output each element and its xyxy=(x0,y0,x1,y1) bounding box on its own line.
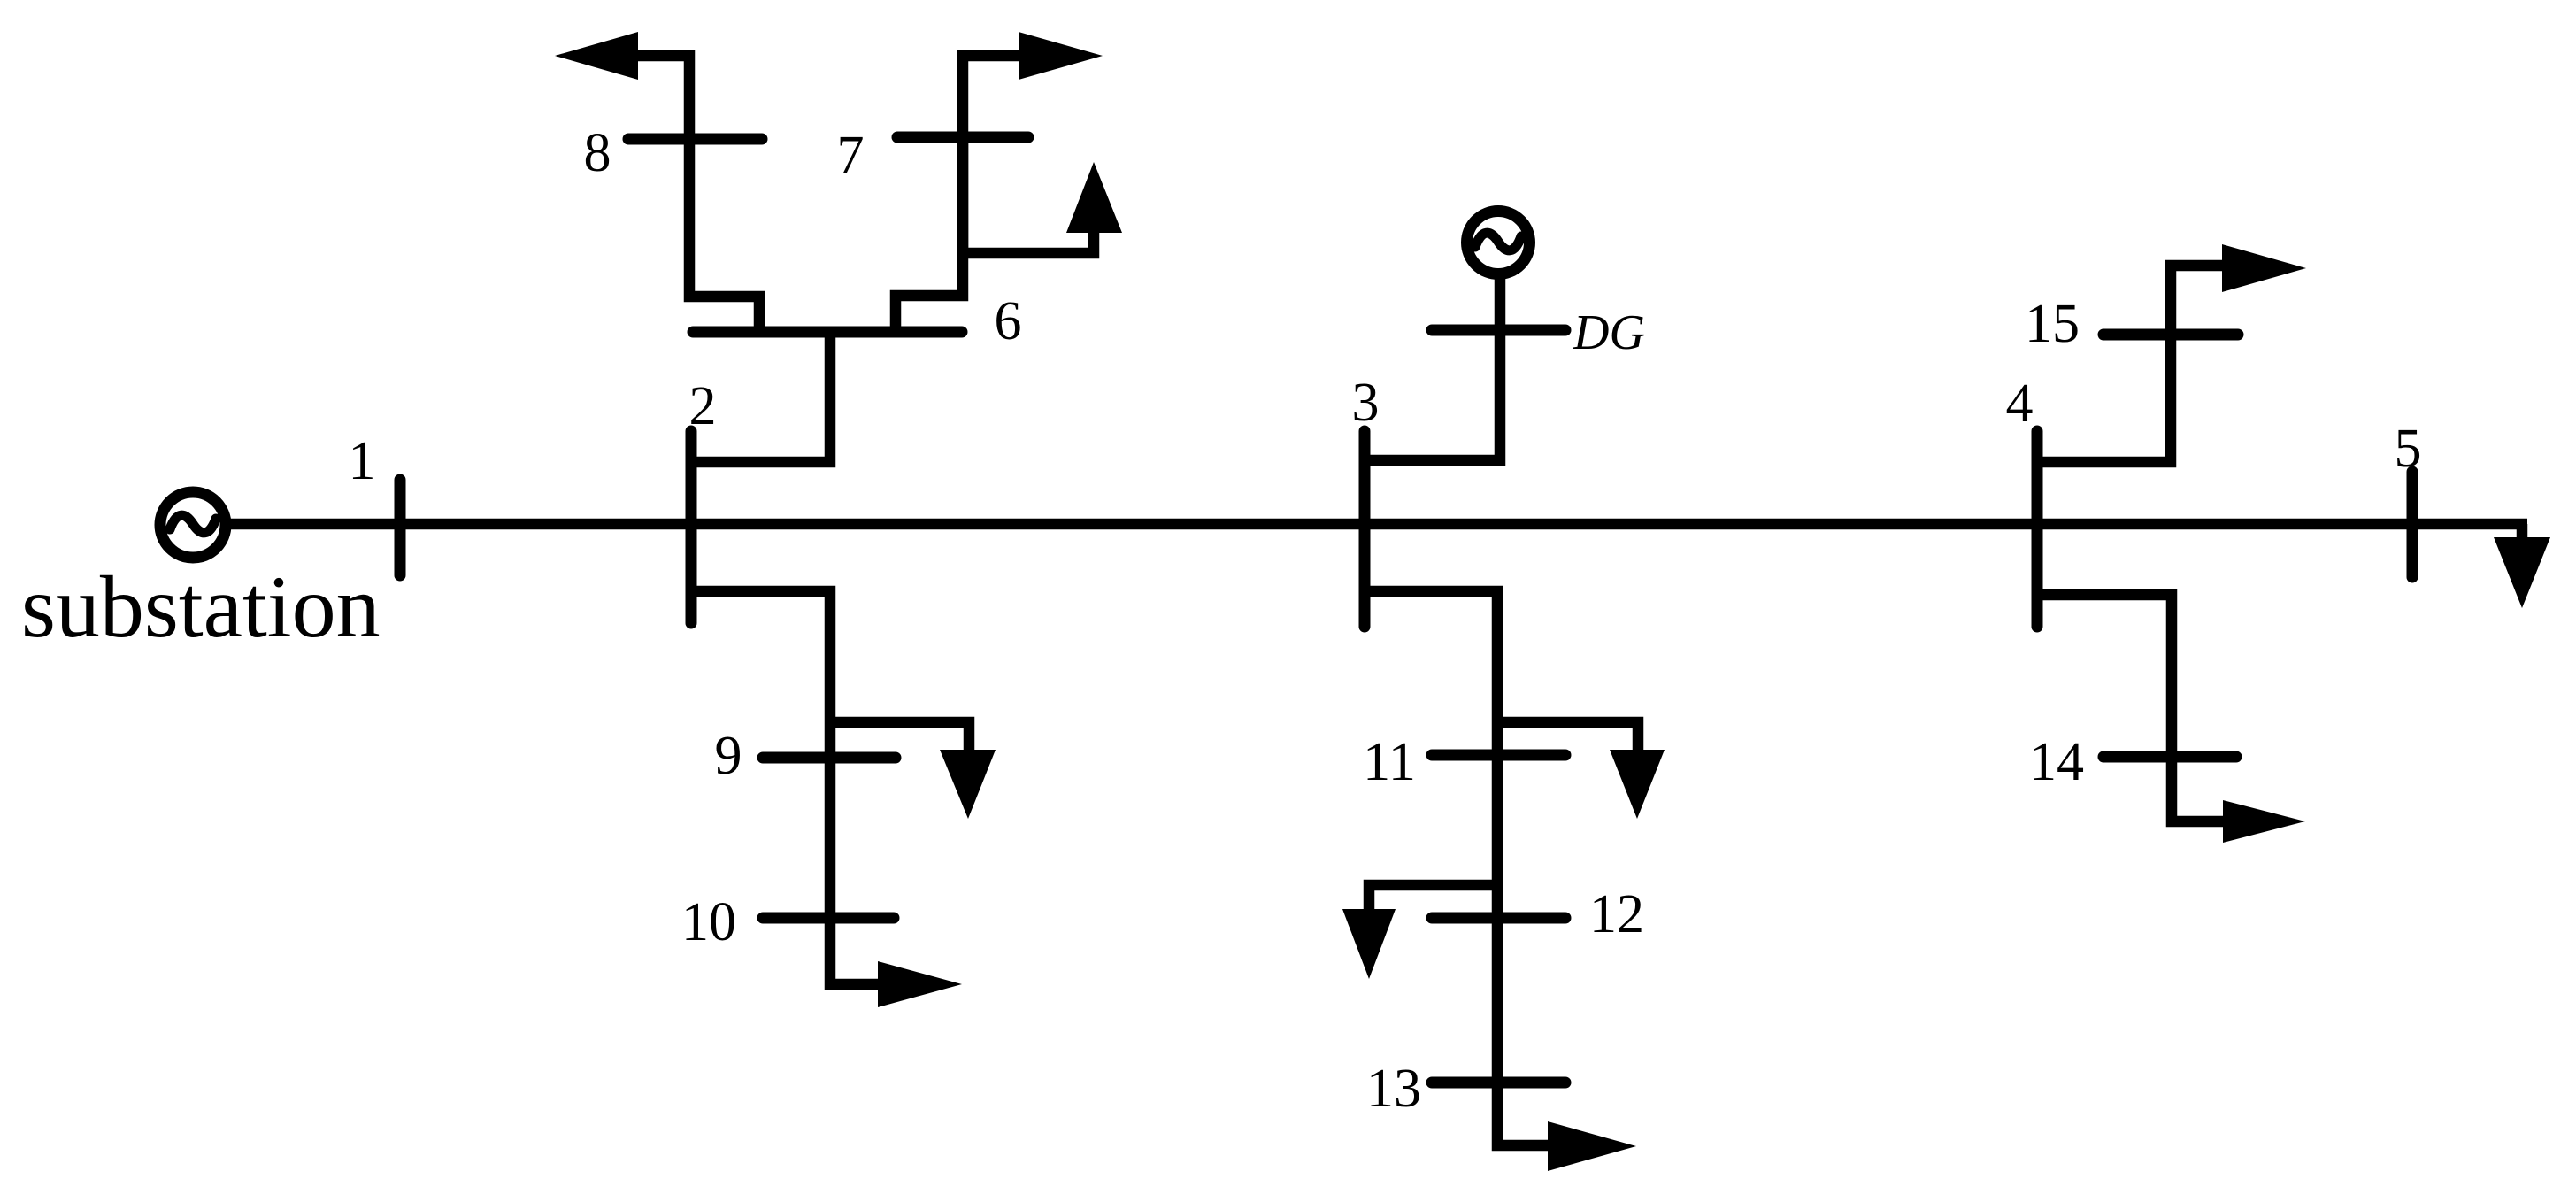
wire bus6 to bus7 (step) xyxy=(896,142,963,332)
svg-text:9: 9 xyxy=(715,726,742,786)
wire bus11 load branch xyxy=(1497,722,1638,750)
wire bus12 load branch (left) xyxy=(1369,885,1497,909)
bus 8 xyxy=(628,134,762,145)
wire bus4 to bus15 branch xyxy=(2037,266,2222,462)
svg-text:13: 13 xyxy=(1366,1059,1421,1119)
load arrow bus10 (right) xyxy=(878,961,962,1007)
load arrow bus13 (right) xyxy=(1548,1121,1636,1171)
bus 13 xyxy=(1432,1077,1565,1089)
load arrow bus9 (down) xyxy=(940,750,996,819)
DG AC source xyxy=(1467,212,1530,274)
bus 4 xyxy=(2032,431,2043,627)
bus 2 xyxy=(686,431,697,623)
bus 3 xyxy=(1359,431,1371,627)
wire bus6 to bus8 (step) xyxy=(689,142,759,332)
svg-text:14: 14 xyxy=(2029,732,2084,792)
svg-text:7: 7 xyxy=(837,126,865,186)
bus 14 xyxy=(2103,751,2236,763)
load arrow bus15 (right) xyxy=(2222,244,2306,292)
svg-text:6: 6 xyxy=(995,291,1022,351)
svg-text:5: 5 xyxy=(2395,419,2422,479)
wire bus7 outgoing line (up-right) xyxy=(963,56,1019,142)
svg-text:11: 11 xyxy=(1363,732,1416,792)
wire bus2 lower branch to bus9/bus10 chain xyxy=(691,591,881,984)
load arrow bus12 (down) xyxy=(1342,909,1396,979)
svg-text:8: 8 xyxy=(584,123,611,183)
bus 15 xyxy=(2103,329,2238,341)
wire bus3 to DG xyxy=(1365,274,1500,460)
load arrow bus7 lateral (up) xyxy=(1066,162,1122,233)
bus 1 xyxy=(395,480,406,575)
bus 9 xyxy=(763,752,896,764)
wire bus7 lateral with up arrow xyxy=(963,137,1094,253)
wire feeder end elbow xyxy=(2517,524,2528,539)
bus 7 xyxy=(897,132,1028,143)
svg-text:1: 1 xyxy=(349,431,376,491)
wire bus2 to bus6 (upper branch) xyxy=(691,332,830,462)
wire main feeder bus1-bus5 xyxy=(229,519,2527,530)
wire bus9 load branch xyxy=(830,722,969,750)
DG bus bar xyxy=(1432,325,1565,336)
load arrow feeder end (down) xyxy=(2494,537,2550,608)
svg-text:15: 15 xyxy=(2025,294,2080,354)
svg-text:DG: DG xyxy=(1573,305,1645,360)
svg-text:2: 2 xyxy=(689,376,717,436)
load arrow bus8 (left) xyxy=(555,32,638,80)
bus 11 xyxy=(1432,750,1565,761)
load arrow bus14 (right) xyxy=(2223,800,2305,843)
substation AC source G1 xyxy=(160,492,226,558)
load arrow bus11 (down) xyxy=(1610,750,1665,819)
bus 5 xyxy=(2407,472,2418,577)
bus 12 xyxy=(1432,913,1565,924)
wire bus8 outgoing line (up-left) xyxy=(638,56,689,142)
svg-text:substation: substation xyxy=(21,558,381,656)
bus 6 xyxy=(693,327,962,338)
svg-text:3: 3 xyxy=(1352,373,1380,433)
wire bus3 lower branch to bus11/12/13 chain xyxy=(1365,591,1552,1145)
svg-text:4: 4 xyxy=(2006,374,2034,434)
bus 10 xyxy=(763,913,894,924)
wire bus4 to bus14 branch xyxy=(2037,595,2223,821)
svg-text:10: 10 xyxy=(681,892,736,952)
svg-text:12: 12 xyxy=(1589,884,1644,944)
load arrow bus7 (right) xyxy=(1019,32,1103,80)
